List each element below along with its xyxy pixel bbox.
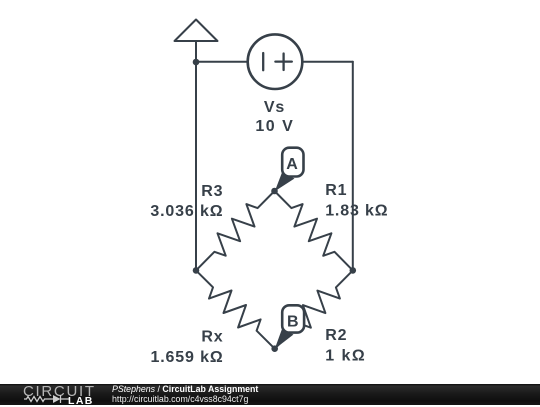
svg-text:Vs: Vs [264, 99, 285, 116]
svg-text:B: B [287, 314, 299, 331]
svg-text:Rx: Rx [201, 328, 223, 345]
svg-text:R2: R2 [325, 327, 347, 344]
svg-text:R3: R3 [201, 183, 223, 200]
svg-text:10 V: 10 V [255, 118, 294, 135]
svg-text:A: A [286, 156, 298, 173]
svg-text:1.83 kΩ: 1.83 kΩ [325, 203, 388, 220]
svg-text:1.659 kΩ: 1.659 kΩ [150, 349, 223, 366]
svg-text:R1: R1 [325, 182, 347, 199]
svg-text:1 kΩ: 1 kΩ [325, 347, 366, 364]
svg-text:3.036 kΩ: 3.036 kΩ [150, 203, 223, 220]
